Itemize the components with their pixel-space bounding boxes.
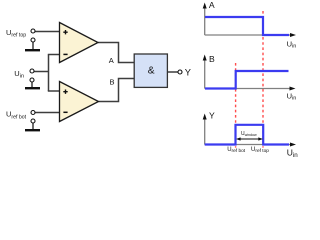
wire U2 output to AND input B <box>99 79 135 102</box>
ground (middle) <box>25 87 40 89</box>
svg-text:Uref top: Uref top <box>6 28 26 39</box>
ground (bottom) <box>25 129 40 131</box>
svg-text:Uwindow: Uwindow <box>241 131 257 137</box>
wire Uref-bot terminal to U2 - input <box>33 112 60 114</box>
signal trace A <box>205 17 289 35</box>
graph B vertical axis <box>204 59 206 89</box>
terminal Uref-top signal <box>31 29 35 33</box>
signal trace Y window pulse <box>205 125 289 145</box>
AND gate U3 <box>134 54 167 87</box>
wire node to U1 - input <box>48 54 60 56</box>
wire U1 output to AND input A <box>98 43 134 63</box>
op-amp U1 + symbol <box>63 30 67 34</box>
svg-text:B: B <box>110 78 115 87</box>
svg-text:Y: Y <box>185 68 191 78</box>
node Uref-bot dashed threshold line (left, x=235.6) <box>235 63 237 148</box>
graph A vertical axis <box>204 7 206 35</box>
wire Uin terminal to node <box>32 71 49 73</box>
svg-text:A: A <box>109 56 114 65</box>
wire AND output to terminal Y <box>168 71 179 73</box>
op-amp U1 (top comparator) <box>60 23 99 63</box>
svg-text:Uin: Uin <box>287 91 297 101</box>
wire Uref-top ground stub <box>32 40 34 49</box>
dimension arrow Uwindow width <box>239 138 260 140</box>
wire node to U2 + input <box>48 90 60 92</box>
signal trace B <box>205 71 289 89</box>
svg-text:Y: Y <box>209 111 215 121</box>
wire Uref-bot ground stub <box>32 121 34 129</box>
terminal Uref-bot return <box>31 119 35 123</box>
terminal Uin return <box>30 78 34 82</box>
svg-text:A: A <box>209 0 215 10</box>
wire Uin vertical bus <box>48 55 50 92</box>
svg-text:B: B <box>209 54 215 64</box>
svg-text:Uref top: Uref top <box>251 147 269 154</box>
svg-text:Uref bot: Uref bot <box>6 109 27 120</box>
terminal Uref-bot signal <box>31 111 35 115</box>
wire Uref-top terminal to U1 + input <box>33 31 60 33</box>
op-amp U2 - symbol <box>63 111 67 113</box>
terminal Y output <box>178 70 182 74</box>
graph Y horizontal axis <box>205 144 292 146</box>
graph B horizontal axis <box>205 88 291 90</box>
graph A horizontal axis <box>205 34 291 36</box>
graph Y vertical axis <box>204 118 206 145</box>
ground (top) <box>25 49 40 51</box>
svg-text:Uin: Uin <box>14 69 24 80</box>
terminal Uin signal <box>30 69 34 73</box>
op-amp U2 (bottom comparator) <box>60 82 99 122</box>
svg-text:Uin: Uin <box>287 39 297 49</box>
terminal Uref-top return <box>31 38 35 42</box>
svg-text:Uin: Uin <box>287 147 299 159</box>
wire Uin ground stub <box>31 80 33 87</box>
svg-text:Uref bot: Uref bot <box>227 147 246 154</box>
op-amp U1 - symbol <box>63 53 67 55</box>
svg-text:&: & <box>148 66 155 77</box>
node Uref-top dashed threshold line (right, x=263) <box>262 11 264 148</box>
op-amp U2 + symbol <box>63 90 67 94</box>
